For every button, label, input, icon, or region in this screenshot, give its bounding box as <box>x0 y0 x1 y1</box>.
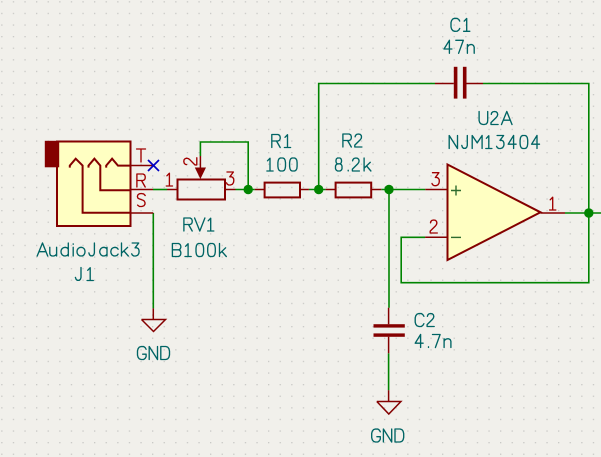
J1 pin T line <box>131 165 154 167</box>
op-amp output pin 1 line <box>541 212 566 214</box>
op-amp U2A triangle <box>448 165 541 261</box>
C1 pin lines <box>435 83 483 85</box>
wire RV1 pin3 to R1 <box>236 189 255 191</box>
RV1 pin number 3 <box>227 172 234 185</box>
resistor R2 body <box>336 183 372 198</box>
label 4.7n <box>415 335 451 348</box>
op-amp pin number 1 <box>550 197 556 210</box>
wire R2 to opamp pin3 <box>381 189 425 191</box>
label 47n <box>444 40 474 53</box>
R2 pin lines <box>326 189 382 191</box>
op-amp pin number 2 <box>430 220 437 233</box>
label 8.2k <box>336 158 371 171</box>
label J1 <box>75 268 93 281</box>
label GND left <box>138 347 170 360</box>
junction R2/C2/opamp <box>384 185 393 194</box>
label RV1 <box>184 218 214 231</box>
pin name S <box>137 194 145 207</box>
J1 pin S line <box>131 212 154 214</box>
label GND bottom <box>372 429 404 442</box>
label U2A <box>479 112 512 125</box>
label C2 <box>415 314 434 327</box>
pin name R <box>137 174 145 187</box>
J1 ring contact <box>89 159 131 191</box>
J1 pin R line <box>131 189 154 191</box>
label C1 <box>451 18 470 31</box>
wire feedback output to pin2 <box>401 213 589 283</box>
no-connect X on pin T <box>148 160 159 171</box>
wire jack R pin to RV1 pin1 <box>153 189 167 191</box>
op-amp pin number 3 <box>432 173 439 186</box>
capacitor C1 plate left <box>454 67 458 99</box>
RV1 pin1 line <box>167 189 178 191</box>
label NJM13404 <box>449 136 539 149</box>
capacitor C2 plate bottom <box>374 333 405 336</box>
wire jack S pin down to GND <box>152 213 154 308</box>
wire RV1 wiper loop to pin3 junction <box>200 142 248 190</box>
resistor R1 body <box>265 183 300 198</box>
wire output to right edge <box>565 212 601 214</box>
RV1 pin3 line <box>225 189 236 191</box>
junction output node <box>584 208 593 217</box>
ground symbol left <box>142 308 166 331</box>
label AudioJack3 <box>37 243 139 256</box>
capacitor C2 plate top <box>374 324 405 327</box>
op-amp pin 3 line <box>425 189 447 191</box>
label R2 <box>343 134 362 147</box>
junction R1/R2/C1 <box>314 185 323 194</box>
J1 sleeve contact <box>70 159 131 213</box>
RV1 wiper arrow stem <box>199 156 201 168</box>
connector J1 sleeve block <box>45 141 59 168</box>
label B100k <box>172 244 226 257</box>
ground symbol bottom <box>377 390 401 414</box>
op-amp pin 2 line <box>425 236 447 238</box>
wire R1 to R2 <box>309 189 326 191</box>
wire node down to C2 <box>388 190 390 308</box>
junction RV1.3/R1 <box>244 185 253 194</box>
C2 pin lines <box>388 308 390 354</box>
RV1 wiper arrow head <box>195 168 206 180</box>
wire C1 right to output junction <box>483 84 589 214</box>
R1 pin lines <box>255 189 309 191</box>
label 100 <box>267 158 297 171</box>
connector J1 body <box>57 142 131 227</box>
op-amp plus marker <box>451 186 461 196</box>
J1 tip contact <box>106 159 130 168</box>
RV1 pin number 1 <box>166 173 172 186</box>
wire node up to C1 left <box>319 84 435 190</box>
potentiometer RV1 body <box>178 180 226 200</box>
capacitor C1 plate right <box>463 67 467 99</box>
label R1 <box>272 135 291 148</box>
RV1 pin number 2 (rotated) <box>184 158 197 165</box>
wire C2 to GND <box>388 353 390 390</box>
pin name T <box>137 149 146 162</box>
op-amp minus marker <box>451 236 461 238</box>
